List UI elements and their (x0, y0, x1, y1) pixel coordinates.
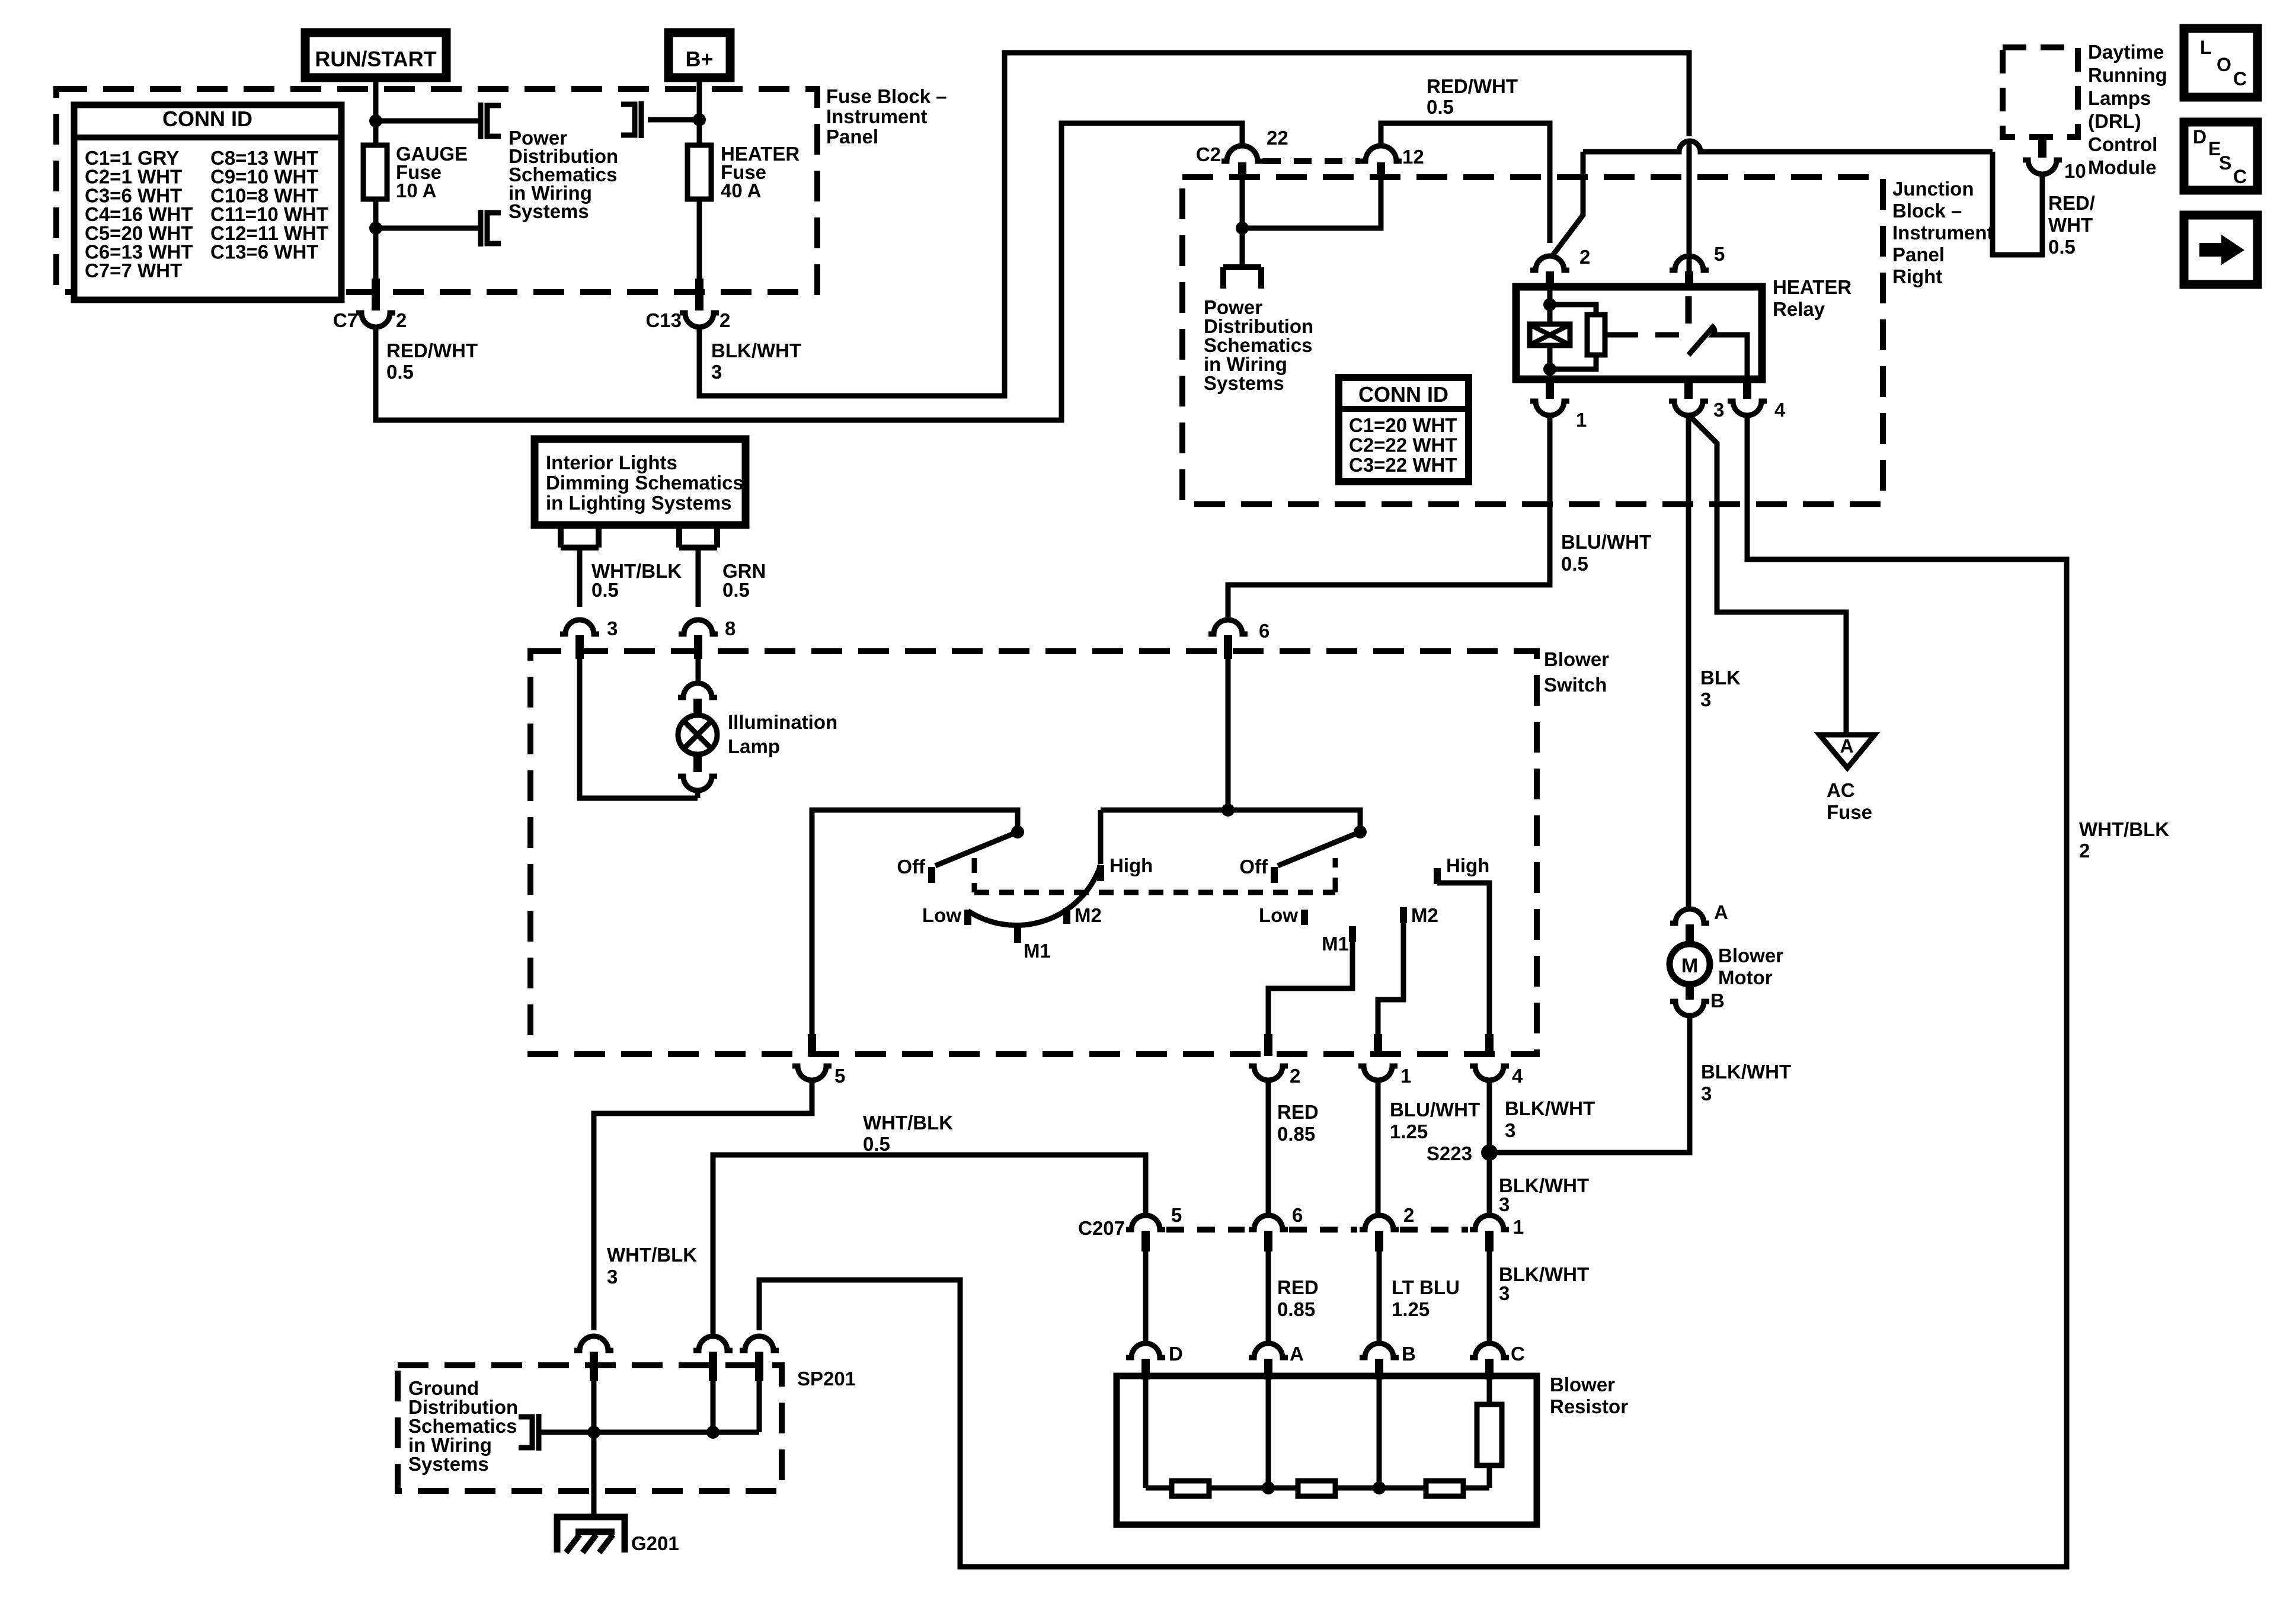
connector relay pin 3 (1684, 379, 1693, 399)
blower motor (1670, 944, 1710, 984)
svg-text:6: 6 (1259, 620, 1269, 642)
connector resistor pin D (1126, 1343, 1165, 1358)
svg-text:M2: M2 (1411, 904, 1438, 926)
svg-text:Panel: Panel (1892, 244, 1945, 265)
right contact M1 wire (1349, 926, 1356, 942)
svg-text:0.85: 0.85 (1277, 1123, 1315, 1145)
wire C7 RED/WHT to C2 pin 22 (376, 123, 1242, 420)
svg-text:High: High (1109, 854, 1153, 876)
svg-text:BLK/WHT: BLK/WHT (1499, 1263, 1589, 1285)
svg-text:SP201: SP201 (797, 1368, 856, 1390)
svg-text:BLU/WHT: BLU/WHT (1390, 1099, 1480, 1121)
svg-text:Systems: Systems (408, 1453, 489, 1475)
relay fixed contact (1686, 296, 1692, 324)
svg-text:1: 1 (1576, 409, 1587, 431)
svg-text:D: D (1169, 1343, 1183, 1365)
fuse GAUGE 10A (373, 121, 379, 228)
wire relay 3 branch to AC fuse (1690, 417, 1846, 734)
svg-text:BLK/WHT: BLK/WHT (1499, 1174, 1589, 1196)
connector switch pin 1 (1374, 1034, 1382, 1056)
wire fork to pin 8 (696, 548, 701, 607)
connector C207 pin 5 (1126, 1215, 1165, 1230)
svg-text:8: 8 (725, 617, 736, 639)
resistor internal wires (1143, 1376, 1149, 1488)
svg-text:Resistor: Resistor (1550, 1395, 1628, 1417)
svg-text:Illumination: Illumination (728, 711, 837, 733)
svg-text:C7: C7 (333, 309, 358, 331)
wire S223 to C207-1 (1487, 1153, 1492, 1215)
power distribution bracket bottom-left (478, 210, 484, 247)
wire to power distribution bracket right (648, 117, 699, 123)
svg-text:WHT: WHT (2048, 214, 2093, 236)
svg-text:WHT/BLK: WHT/BLK (863, 1112, 953, 1134)
schematic fork WHT/BLK (561, 545, 599, 550)
svg-text:2: 2 (1403, 1204, 1414, 1226)
svg-text:Junction: Junction (1892, 178, 1974, 200)
connector relay pin 2 (1547, 123, 1553, 243)
schematic fork GRN (679, 545, 717, 550)
page symbol arrow (2184, 215, 2257, 284)
svg-text:0.85: 0.85 (1277, 1298, 1315, 1320)
node SP201 bus 1 (587, 1426, 600, 1439)
node gauge fuse bottom junction (369, 222, 382, 235)
relay suppressor resistor (1550, 305, 1596, 315)
svg-text:B: B (1710, 990, 1725, 1012)
power label B+ (669, 33, 730, 78)
svg-text:10: 10 (2064, 160, 2086, 182)
svg-text:Panel: Panel (826, 126, 878, 148)
connector C207 pin 2 (1360, 1215, 1399, 1230)
svg-text:3: 3 (607, 617, 618, 639)
svg-text:C13: C13 (645, 309, 682, 331)
wire C207-5 to resistor D (1143, 1251, 1149, 1343)
svg-text:BLK/WHT: BLK/WHT (1701, 1061, 1791, 1083)
C2 connector dashed link (1263, 158, 1360, 164)
svg-text:B: B (1402, 1343, 1416, 1365)
node resistor bus A (1262, 1481, 1275, 1494)
connector resistor pin A (1249, 1343, 1288, 1358)
svg-text:Running: Running (2088, 64, 2167, 86)
svg-text:Systems: Systems (1204, 372, 1284, 394)
connector C13 pin 2 (695, 279, 703, 311)
left contact Off (928, 867, 935, 883)
node heater fuse top junction (693, 113, 706, 126)
svg-text:Module: Module (2088, 156, 2156, 178)
heater relay box (1516, 287, 1762, 379)
left contact High (1098, 810, 1104, 864)
svg-text:5: 5 (1714, 243, 1725, 265)
svg-text:0.5: 0.5 (1561, 553, 1588, 575)
power distribution fork (junction block) (1223, 264, 1261, 270)
node C2 22 junction (1236, 222, 1249, 235)
resistor element high (1477, 1404, 1502, 1465)
connector C2 pin 12 (1360, 146, 1402, 161)
svg-text:C2=22 WHT: C2=22 WHT (1349, 434, 1457, 456)
relay movable contact (1689, 327, 1747, 379)
svg-text:Fuse Block –: Fuse Block – (826, 85, 947, 107)
AC fuse (1819, 735, 1875, 768)
wire C207-2 LT BLU to resistor B (1377, 1251, 1382, 1343)
connector DRL pin 10 (2038, 137, 2046, 158)
svg-text:6: 6 (1292, 1204, 1303, 1226)
ground G201 (557, 1517, 625, 1553)
svg-text:Blower: Blower (1718, 945, 1783, 966)
svg-text:5: 5 (1171, 1204, 1182, 1226)
svg-text:M: M (1681, 955, 1698, 977)
wire relay 4 WHT/BLK 2 loop (759, 415, 2067, 1567)
svg-text:Instrument: Instrument (1892, 222, 1994, 244)
svg-text:High: High (1446, 854, 1489, 876)
svg-text:2: 2 (720, 309, 730, 331)
svg-text:RUN/START: RUN/START (315, 47, 436, 71)
svg-text:Motor: Motor (1718, 966, 1773, 988)
svg-text:Lamp: Lamp (728, 735, 780, 757)
connector switch pin 2 (1264, 1034, 1272, 1056)
node SP201 bus 2 (706, 1426, 720, 1439)
resistor element low (1172, 1481, 1209, 1496)
svg-text:3: 3 (1505, 1119, 1515, 1141)
svg-text:G201: G201 (631, 1532, 679, 1554)
wire BLU/WHT relay 1 to switch pin 6 (1228, 415, 1550, 619)
wire B+ to heater fuse (697, 78, 702, 148)
svg-text:BLK: BLK (1700, 667, 1741, 689)
connector SP201 pin 1 (574, 1336, 613, 1350)
page symbol D E S C (2184, 122, 2257, 190)
svg-text:Blower: Blower (1544, 648, 1609, 670)
svg-text:1: 1 (1513, 1216, 1524, 1238)
wire WHT/BLK 0.5 SP201 to C207-5 (713, 1155, 1146, 1335)
relay coil element (1530, 324, 1570, 345)
right contact Low (1301, 910, 1308, 925)
svg-text:Daytime: Daytime (2088, 41, 2164, 63)
connector relay pin 1 (1546, 379, 1554, 399)
svg-text:RED/WHT: RED/WHT (1427, 75, 1518, 97)
power distribution bracket top-left (478, 103, 484, 139)
svg-text:0.5: 0.5 (386, 361, 414, 383)
svg-text:2: 2 (1579, 246, 1590, 268)
svg-text:10 A: 10 A (396, 180, 436, 201)
svg-text:Control: Control (2088, 133, 2157, 155)
svg-text:Block –: Block – (1892, 200, 1962, 222)
svg-text:Fuse: Fuse (1827, 801, 1872, 823)
svg-text:2: 2 (2079, 840, 2090, 862)
resistor element med1 (1298, 1481, 1335, 1496)
svg-text:C3=22 WHT: C3=22 WHT (1349, 454, 1457, 476)
left contact M1 (1014, 926, 1021, 943)
daytime running lamps module dashed box (2003, 47, 2078, 137)
left contact M2 (1063, 908, 1070, 924)
connector relay pin 5 (1670, 256, 1709, 270)
SP201 dashed box (398, 1365, 782, 1491)
svg-text:C1=20 WHT: C1=20 WHT (1349, 414, 1457, 436)
wire pin3 to lamp return (580, 658, 698, 798)
connector resistor pin C (1470, 1343, 1509, 1358)
svg-text:C: C (2233, 166, 2247, 187)
SP201 internal bus (540, 1430, 759, 1435)
svg-text:0.5: 0.5 (722, 579, 750, 601)
wire C13 BLK/WHT to junction block (699, 53, 1689, 396)
connector pin 3 blower switch (560, 620, 599, 634)
blower resistor box (1117, 1376, 1537, 1525)
svg-text:M1: M1 (1024, 940, 1051, 962)
svg-text:BLU/WHT: BLU/WHT (1561, 531, 1651, 553)
wire switch 1 BLU/WHT 1.25 to C207-2 (1376, 1080, 1381, 1215)
page symbol L O C (2184, 28, 2257, 97)
svg-text:LT BLU: LT BLU (1392, 1276, 1460, 1298)
wire DRL pin 10 RED/WHT (1993, 152, 2042, 255)
resistor element med2 (1426, 1481, 1463, 1496)
left contact Low (964, 910, 971, 925)
svg-text:C: C (2233, 68, 2247, 89)
svg-text:AC: AC (1827, 779, 1855, 801)
svg-text:Switch: Switch (1544, 674, 1607, 696)
wire RUN/START to gauge fuse (373, 78, 379, 148)
wire C207-1 to resistor C (1487, 1251, 1492, 1343)
left wafer feed bar (812, 810, 1018, 1034)
wafer detent dashed channel (972, 858, 977, 892)
right wafer feed bar (1101, 810, 1360, 828)
right contact M2 wire (1400, 907, 1407, 923)
svg-text:C: C (1511, 1343, 1525, 1365)
wire C2-12 to relay pin 2 (1381, 123, 1550, 147)
node coil top (1543, 298, 1556, 311)
relay coil wire (1547, 288, 1553, 379)
svg-text:4: 4 (1774, 399, 1786, 421)
svg-text:5: 5 (834, 1065, 845, 1087)
svg-text:O: O (2217, 54, 2231, 75)
connector C207 pin 1 (1470, 1215, 1509, 1230)
svg-text:A: A (1840, 735, 1853, 757)
left wafer moving contact (935, 832, 1018, 866)
svg-text:0.5: 0.5 (591, 579, 619, 601)
wire DRL feed diagonal to pin 2 (1552, 152, 1583, 256)
svg-text:3: 3 (1700, 689, 1711, 710)
svg-text:RED: RED (1277, 1276, 1319, 1298)
svg-text:12: 12 (1402, 146, 1424, 168)
svg-text:S: S (2219, 152, 2231, 174)
C207 dashed link 6-2 (1289, 1227, 1357, 1233)
svg-text:BLK/WHT: BLK/WHT (1505, 1097, 1595, 1119)
svg-text:40 A: 40 A (721, 180, 761, 201)
connector SP201 pin 2 (693, 1336, 733, 1350)
wire relay 3 to blower motor (1686, 415, 1691, 908)
svg-text:0.5: 0.5 (1427, 96, 1454, 118)
svg-text:WHT/BLK: WHT/BLK (607, 1244, 697, 1266)
connector SP201 pin 3 (740, 1336, 779, 1350)
wire gauge fuse to C7 (373, 228, 379, 279)
svg-text:2: 2 (1290, 1065, 1300, 1087)
interior lights dimming box (535, 439, 746, 525)
CONN ID table junction block (1339, 377, 1469, 482)
connector C7 pin 2 (372, 279, 380, 311)
wire switch 4 BLK/WHT 3 to S223 (1487, 1080, 1492, 1153)
node wafer common junction (1221, 804, 1235, 817)
connector C2 pin 22 (1221, 146, 1263, 161)
svg-text:D: D (2193, 126, 2207, 148)
svg-text:1: 1 (1400, 1065, 1411, 1087)
connector blower motor pin B (1686, 984, 1694, 1000)
ground distribution bracket (536, 1414, 542, 1451)
svg-text:Off: Off (1239, 856, 1268, 878)
svg-text:1.25: 1.25 (1392, 1298, 1430, 1320)
left wafer wiper arc (968, 865, 1101, 925)
svg-text:Low: Low (1259, 904, 1298, 926)
node S223 splice (1481, 1144, 1498, 1161)
wire to power distribution bracket bottom (376, 226, 478, 231)
connector blower motor pin A (1670, 909, 1709, 923)
svg-text:C7=7 WHT: C7=7 WHT (85, 260, 182, 281)
svg-text:BLK/WHT: BLK/WHT (711, 340, 801, 361)
wire top feed through junction block to relay 5 (1687, 142, 1692, 271)
illumination lamp (678, 683, 717, 697)
svg-text:A: A (1714, 901, 1728, 923)
svg-text:1.25: 1.25 (1390, 1121, 1428, 1142)
svg-text:Interior Lights: Interior Lights (546, 452, 677, 473)
svg-text:CONN ID: CONN ID (1358, 382, 1448, 406)
connector switch pin 4 (1485, 1034, 1494, 1056)
wire switch 2 RED 0.85 to C207-6 (1266, 1080, 1271, 1215)
svg-text:22: 22 (1267, 127, 1288, 149)
power distribution bracket top-right (639, 101, 644, 138)
connector switch pin 5 (808, 1034, 816, 1056)
right contact High wire (1434, 868, 1441, 884)
svg-text:0.5: 0.5 (863, 1133, 890, 1155)
svg-text:WHT/BLK: WHT/BLK (2079, 818, 2169, 840)
svg-text:Relay: Relay (1773, 298, 1825, 320)
svg-text:L: L (2200, 37, 2212, 58)
wire to power distribution bracket top (376, 119, 478, 124)
power label RUN/START (305, 33, 446, 78)
blower switch dashed box (530, 651, 1537, 1054)
svg-text:RED/: RED/ (2048, 192, 2095, 214)
node left wafer pivot (1011, 825, 1024, 838)
svg-text:Instrument: Instrument (826, 105, 928, 127)
svg-text:HEATER: HEATER (1773, 276, 1851, 298)
relay actuation dashed line (1614, 332, 1691, 338)
svg-text:C2: C2 (1196, 143, 1221, 165)
connector pin 6 blower switch (1208, 620, 1248, 634)
CONN ID table fuse block (74, 105, 341, 300)
connector C207 pin 6 (1249, 1215, 1288, 1230)
wire fork to pin 3 (577, 548, 583, 607)
C207 dashed link 5-6 (1166, 1227, 1245, 1233)
svg-text:Systems: Systems (509, 200, 589, 222)
node gauge fuse top junction (369, 114, 382, 127)
svg-text:Dimming Schematics: Dimming Schematics (546, 472, 744, 494)
svg-text:Low: Low (922, 904, 961, 926)
node right wafer pivot (1354, 825, 1367, 838)
svg-text:3: 3 (1499, 1282, 1510, 1304)
svg-text:M2: M2 (1075, 904, 1102, 926)
svg-text:Off: Off (897, 856, 926, 878)
fuse block dashed box (56, 89, 817, 292)
svg-text:RED: RED (1277, 1101, 1319, 1123)
svg-text:S223: S223 (1427, 1142, 1472, 1164)
svg-text:in Lighting Systems: in Lighting Systems (546, 492, 732, 514)
svg-text:(DRL): (DRL) (2088, 110, 2141, 132)
C207 dashed link 2-1 (1400, 1227, 1468, 1233)
right wafer moving contact (1278, 832, 1360, 866)
svg-text:0.5: 0.5 (2048, 236, 2076, 258)
connector relay pin 4 (1743, 379, 1751, 399)
svg-text:Lamps: Lamps (2088, 87, 2151, 109)
wire C2-22 to power distribution fork (1240, 180, 1245, 267)
node coil bottom (1543, 363, 1556, 376)
svg-text:4: 4 (1512, 1065, 1523, 1087)
wire switch 5 WHT/BLK 3 to SP201 (594, 1080, 812, 1330)
svg-text:3: 3 (1713, 399, 1724, 421)
connector pin 8 blower switch (679, 620, 718, 634)
svg-text:A: A (1290, 1343, 1304, 1365)
svg-text:Blower: Blower (1550, 1374, 1615, 1395)
svg-text:Right: Right (1892, 265, 1942, 287)
junction block entry hop wire (RED/WHT from DRL) (1583, 141, 1993, 152)
fuse HEATER 40A (697, 120, 702, 279)
svg-text:2: 2 (396, 309, 407, 331)
svg-text:3: 3 (1499, 1193, 1510, 1215)
connector resistor pin B (1360, 1343, 1399, 1358)
right contact Off (1271, 867, 1278, 883)
svg-text:RED/WHT: RED/WHT (386, 340, 478, 361)
svg-text:3: 3 (607, 1266, 618, 1288)
wire bridge 22 to 12 (1242, 180, 1381, 228)
svg-text:M1: M1 (1322, 933, 1349, 955)
svg-text:3: 3 (711, 361, 722, 383)
svg-text:3: 3 (1701, 1083, 1712, 1105)
junction block dashed box (1182, 177, 1883, 504)
wire pin8 to illumination lamp (696, 658, 701, 685)
wire S223 to blower motor B (1489, 1014, 1690, 1153)
wire pin 6 to wafer common (1226, 658, 1231, 810)
svg-text:B+: B+ (685, 47, 713, 71)
node resistor bus B (1373, 1481, 1386, 1494)
wire C207-6 RED to resistor A (1266, 1251, 1271, 1343)
svg-text:C207: C207 (1078, 1217, 1125, 1239)
svg-text:CONN ID: CONN ID (162, 107, 252, 131)
svg-text:C13=6 WHT: C13=6 WHT (210, 241, 318, 263)
